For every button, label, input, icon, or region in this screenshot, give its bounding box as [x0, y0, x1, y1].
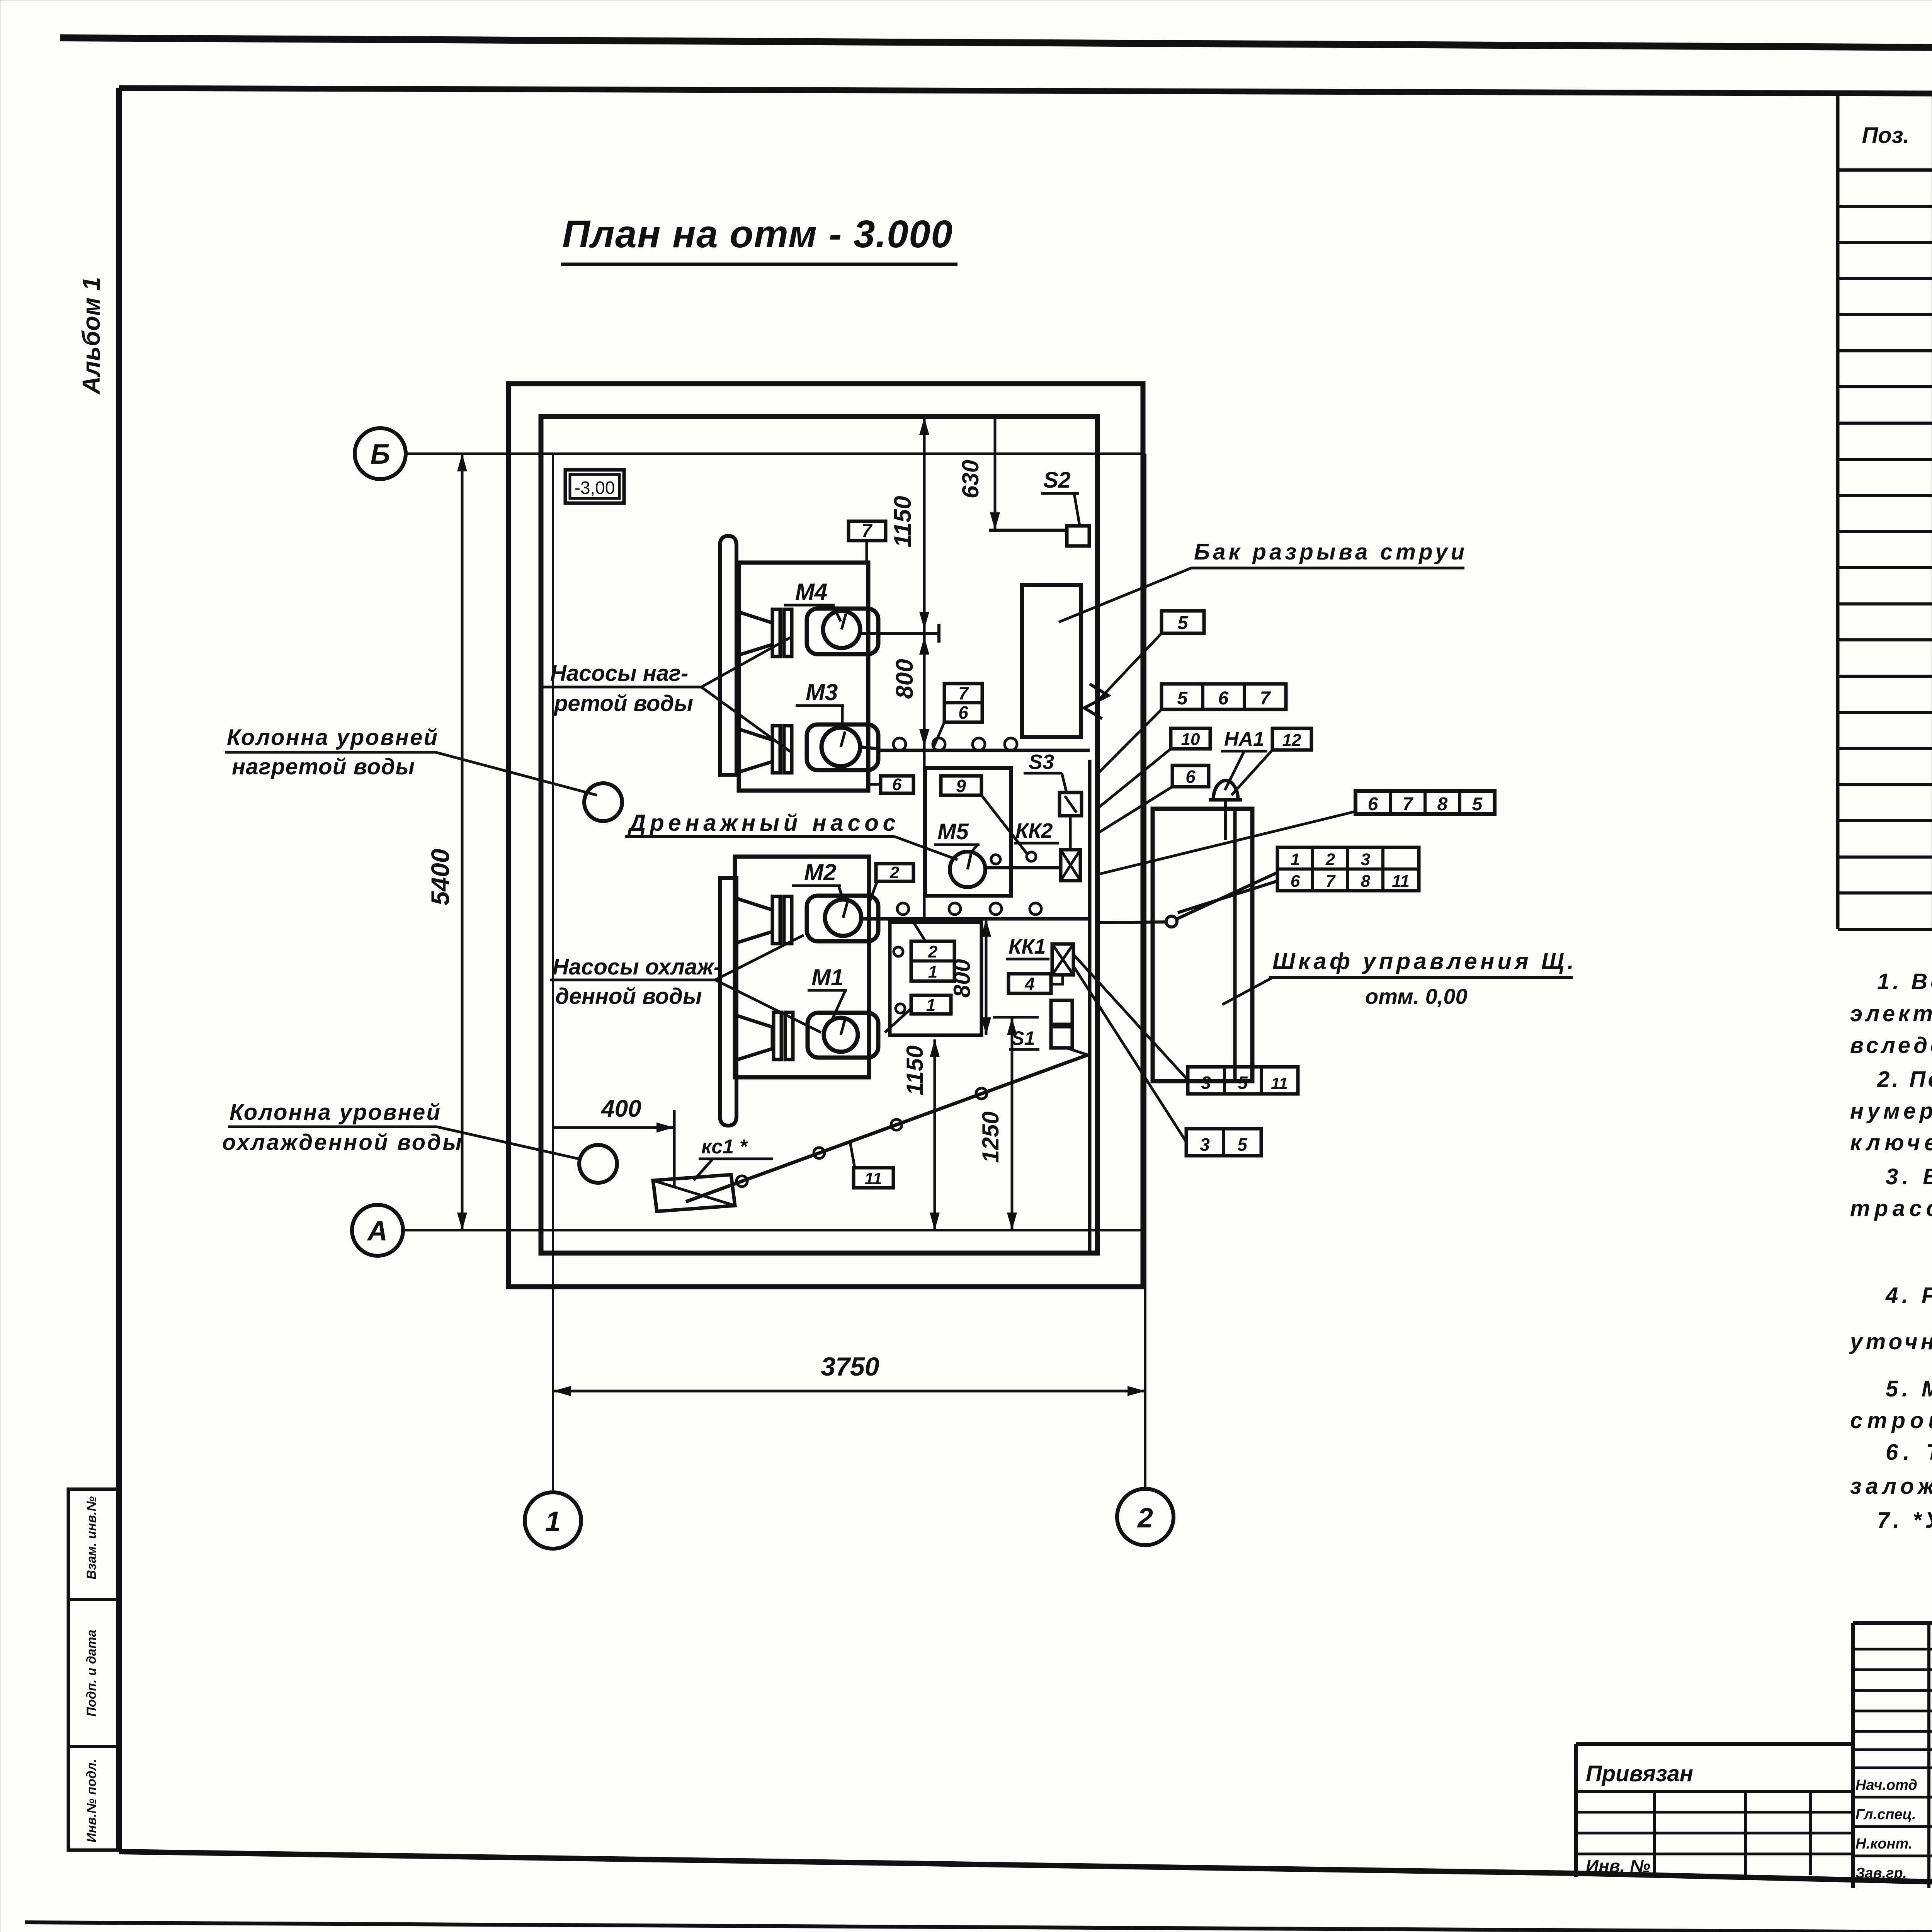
svg-text:400: 400	[600, 1095, 641, 1122]
svg-text:кс1 *: кс1 *	[701, 1136, 748, 1158]
svg-text:1250: 1250	[978, 1111, 1003, 1163]
svg-text:М2: М2	[804, 859, 836, 885]
svg-text:8: 8	[1361, 872, 1371, 891]
svg-text:Бак разрыва струи: Бак разрыва струи	[1194, 539, 1464, 565]
svg-text:уточнить при монтаже.: уточнить при монтаже.	[1849, 1329, 1932, 1354]
svg-text:заложить на отм. - 3.050.: заложить на отм. - 3.050.	[1850, 1474, 1932, 1499]
svg-text:1150: 1150	[889, 496, 916, 547]
svg-text:1150: 1150	[902, 1045, 928, 1095]
svg-text:2: 2	[928, 942, 938, 961]
svg-text:Взам. инв.№: Взам. инв.№	[84, 1496, 99, 1579]
svg-text:S2: S2	[1043, 468, 1071, 493]
svg-text:отм. 0,00: отм. 0,00	[1365, 984, 1468, 1009]
svg-text:2: 2	[1325, 850, 1335, 869]
svg-text:А: А	[367, 1216, 388, 1247]
svg-text:1: 1	[545, 1506, 561, 1537]
svg-text:ретой воды: ретой воды	[553, 691, 693, 716]
svg-text:НА1: НА1	[1224, 728, 1264, 750]
svg-text:4. Размещение проводок, приб: 4. Размещение проводок, приборов и аппар…	[1885, 1283, 1932, 1308]
svg-text:7: 7	[958, 683, 969, 703]
svg-text:5. Монтаж электроустановок в: 5. Монтаж электроустановок выполнить сог…	[1886, 1376, 1932, 1401]
svg-text:КК1: КК1	[1009, 935, 1046, 958]
svg-text:7: 7	[1326, 872, 1336, 891]
svg-text:денной воды: денной воды	[555, 984, 702, 1009]
svg-text:800: 800	[891, 659, 918, 699]
svg-text:Поз.: Поз.	[1862, 123, 1910, 148]
svg-text:3750: 3750	[821, 1352, 879, 1381]
svg-text:Гл.спец.: Гл.спец.	[1855, 1806, 1916, 1823]
svg-text:нагретой воды: нагретой воды	[232, 754, 415, 779]
svg-text:6: 6	[1218, 688, 1229, 709]
svg-text:1. Все металлические нормаль: 1. Все металлические нормально нетоковед…	[1877, 969, 1932, 994]
svg-text:2. Позиции монтируемых прибо: 2. Позиции монтируемых приборов и аппара…	[1877, 1067, 1932, 1092]
svg-text:трасс проводок.: трасс проводок.	[1850, 1196, 1932, 1221]
svg-text:строительным нормам и прави: строительным нормам и правилам СНиП 3.05…	[1850, 1408, 1932, 1433]
svg-text:Н.конт.: Н.конт.	[1855, 1836, 1912, 1852]
svg-text:вследствие нарушения изоляци: вследствие нарушения изоляции, занулить …	[1850, 1033, 1932, 1058]
svg-text:S3: S3	[1029, 750, 1054, 774]
svg-text:Зав.гр.: Зав.гр.	[1855, 1865, 1907, 1881]
svg-text:электроустановок, могущие ок: электроустановок, могущие оказаться под …	[1850, 1001, 1932, 1026]
svg-text:3. В прямоугольниках на выно: 3. В прямоугольниках на выносках указаны…	[1886, 1164, 1932, 1189]
svg-text:КК2: КК2	[1015, 819, 1053, 842]
svg-text:План на отм - 3.000: План на отм - 3.000	[562, 213, 952, 256]
svg-text:7: 7	[862, 521, 873, 541]
svg-text:Насосы охлаж-: Насосы охлаж-	[553, 954, 721, 980]
svg-text:5: 5	[1472, 794, 1483, 815]
svg-text:М3: М3	[806, 679, 838, 705]
svg-text:6. Трубы для кабелей прокла: 6. Трубы для кабелей прокладываемых в по…	[1886, 1440, 1932, 1465]
svg-text:6: 6	[958, 702, 968, 723]
svg-text:11: 11	[864, 1169, 882, 1188]
svg-text:ключения листы 8,9.: ключения листы 8,9.	[1850, 1130, 1932, 1155]
svg-text:6: 6	[1368, 794, 1378, 815]
svg-text:Привязан: Привязан	[1586, 1761, 1693, 1786]
svg-text:М1: М1	[811, 964, 844, 990]
svg-text:Нач.отд: Нач.отд	[1855, 1777, 1917, 1793]
svg-text:Альбом 1: Альбом 1	[77, 277, 105, 395]
svg-text:1: 1	[928, 963, 937, 981]
svg-text:5: 5	[1237, 1134, 1248, 1155]
svg-text:7: 7	[1260, 688, 1271, 709]
svg-text:Колонна уровней: Колонна уровней	[230, 1100, 440, 1125]
svg-text:S1: S1	[1011, 1027, 1035, 1049]
svg-text:5400: 5400	[426, 849, 454, 905]
svg-text:М5: М5	[937, 819, 969, 844]
svg-text:6: 6	[1291, 872, 1300, 891]
svg-text:6: 6	[1185, 767, 1196, 787]
svg-text:Инв.№ подл.: Инв.№ подл.	[84, 1759, 99, 1843]
svg-text:Дренажный насос: Дренажный насос	[627, 810, 896, 836]
svg-text:9: 9	[956, 776, 966, 796]
svg-text:11: 11	[1392, 872, 1410, 891]
svg-text:3: 3	[1200, 1134, 1210, 1155]
svg-text:630: 630	[957, 460, 983, 498]
svg-text:Б: Б	[371, 439, 390, 470]
svg-text:6: 6	[892, 775, 902, 794]
svg-text:800: 800	[949, 959, 975, 998]
svg-text:2: 2	[889, 863, 900, 882]
svg-text:Инв. №: Инв. №	[1586, 1856, 1650, 1876]
svg-text:1: 1	[926, 996, 935, 1015]
svg-text:охлажденной воды: охлажденной воды	[222, 1130, 462, 1155]
svg-text:2: 2	[1137, 1503, 1153, 1534]
svg-text:8: 8	[1437, 794, 1448, 815]
svg-text:5: 5	[1238, 1073, 1248, 1093]
svg-text:7. *Устанавливается по проек: 7. *Устанавливается по проекту „АТХ” лис…	[1877, 1508, 1932, 1533]
svg-text:-3,00: -3,00	[575, 478, 615, 498]
svg-text:нумерация и тип проводок со: нумерация и тип проводок соответствуют с…	[1850, 1099, 1932, 1124]
svg-text:10: 10	[1181, 730, 1200, 749]
svg-text:7: 7	[1403, 794, 1414, 815]
svg-text:12: 12	[1282, 731, 1301, 750]
svg-text:5: 5	[1177, 688, 1188, 709]
svg-text:М4: М4	[795, 579, 827, 605]
svg-text:Насосы наг-: Насосы наг-	[550, 661, 688, 686]
svg-text:Колонна уровней: Колонна уровней	[227, 725, 437, 750]
svg-text:5: 5	[1178, 613, 1189, 633]
svg-text:1: 1	[1291, 850, 1300, 869]
svg-text:3: 3	[1201, 1073, 1211, 1093]
svg-text:3: 3	[1361, 850, 1370, 869]
svg-text:Подп. и дата: Подп. и дата	[84, 1629, 99, 1716]
svg-text:11: 11	[1271, 1074, 1288, 1092]
svg-text:4: 4	[1024, 974, 1035, 994]
svg-text:Шкаф управления Щ.: Шкаф управления Щ.	[1272, 948, 1574, 974]
